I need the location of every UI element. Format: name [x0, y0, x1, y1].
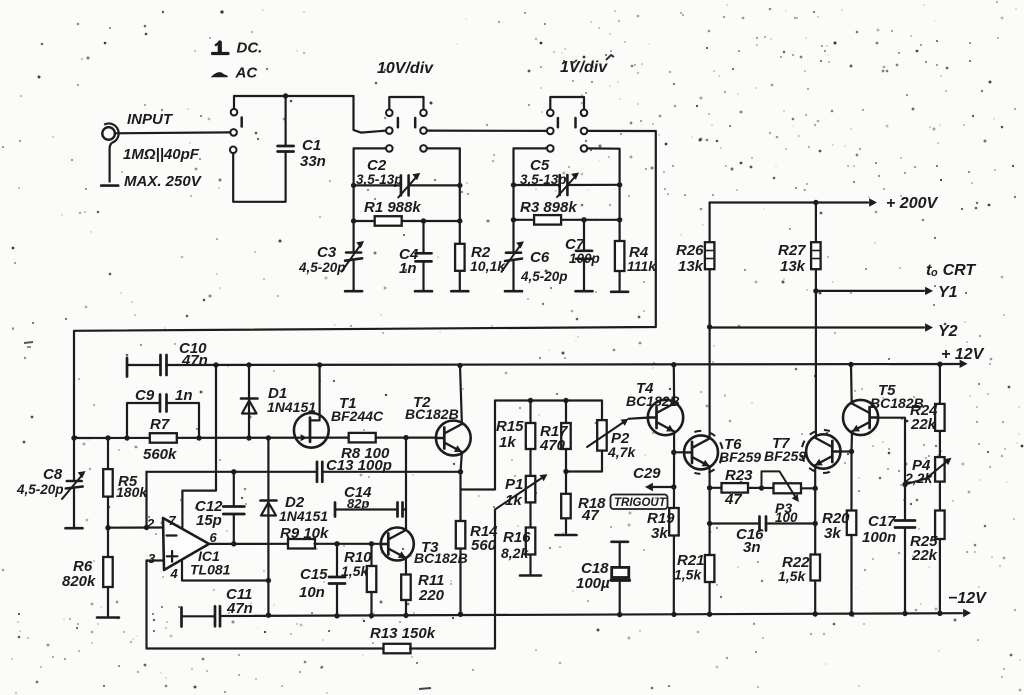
- svg-text:AC: AC: [235, 65, 259, 82]
- transistor T4 BC182B: [648, 400, 683, 435]
- wire S2 lower-right to divider: [427, 148, 460, 185]
- node C16 right: [813, 521, 818, 526]
- ground R18: [556, 534, 577, 537]
- node R21 -12V: [707, 612, 712, 617]
- svg-text:13k: 13k: [780, 258, 806, 275]
- svg-text:10n: 10n: [299, 584, 325, 601]
- svg-text:8,2k: 8,2k: [501, 545, 529, 561]
- node R22 -12V: [813, 611, 818, 616]
- node R14 -12V: [458, 612, 463, 617]
- TRIGOUT arrow C29: [649, 486, 674, 488]
- svg-text:1k: 1k: [505, 492, 522, 509]
- diode D2 1N4151: [267, 438, 269, 615]
- op-amp output line pin6: [209, 543, 289, 545]
- svg-text:3k: 3k: [651, 525, 668, 542]
- svg-text:7: 7: [169, 513, 177, 528]
- svg-text:3k: 3k: [824, 525, 841, 542]
- resistor R10: [370, 544, 372, 566]
- capacitor C16: [710, 522, 760, 524]
- svg-text:560: 560: [471, 537, 497, 554]
- node amplifier input: [71, 435, 76, 440]
- node R7 right: [196, 435, 201, 440]
- svg-text:R27: R27: [778, 242, 806, 259]
- svg-text:1n: 1n: [399, 260, 417, 277]
- svg-text:1,5k: 1,5k: [674, 567, 702, 583]
- svg-text:3,5-13p: 3,5-13p: [520, 172, 567, 187]
- svg-text:820k: 820k: [62, 573, 96, 590]
- trimmer capacitor C3: [353, 221, 355, 253]
- resistor R7: [150, 433, 177, 443]
- svg-text:4,5-20p: 4,5-20p: [16, 482, 64, 497]
- trimmer capacitor C6: [512, 220, 514, 253]
- svg-text:TL081: TL081: [190, 562, 231, 578]
- wire T4 collector to +12V: [673, 365, 675, 404]
- wire S1 DC contact to top rail: [234, 96, 286, 109]
- transistor T2 BC182B: [436, 421, 471, 456]
- wire T2 emitter: [461, 401, 603, 490]
- trimmer capacitor C5: [514, 184, 560, 186]
- svg-text:C17: C17: [868, 513, 896, 530]
- svg-text:22k: 22k: [911, 547, 938, 564]
- resistor R15: [529, 401, 531, 424]
- wire T2 collector: [460, 366, 462, 424]
- wire T3 emitter: [405, 558, 407, 574]
- svg-text:−12V: −12V: [948, 590, 987, 607]
- switch S1 actuator: [240, 118, 243, 127]
- switch S2 contacts: [386, 110, 393, 117]
- svg-text:tₒ CRT: tₒ CRT: [926, 262, 976, 279]
- capacitor C13 line: [147, 471, 318, 473]
- resistor R19: [669, 508, 679, 536]
- node R3 left: [511, 217, 516, 222]
- node R17 top: [563, 398, 568, 403]
- resistor R27: [815, 203, 817, 243]
- svg-text:4,7k: 4,7k: [607, 444, 636, 460]
- capacitor C9: [127, 403, 160, 438]
- wire T5 emitter: [850, 432, 853, 452]
- node R5 top: [105, 435, 110, 440]
- wire right rail: [618, 185, 620, 220]
- node R23/P3: [759, 485, 764, 490]
- +200V rail: [710, 201, 868, 203]
- node +12V pin7 branch: [213, 362, 218, 367]
- scan smudge marks: [606, 55, 614, 60]
- node C12 top: [231, 469, 236, 474]
- svg-text:4,5-20p: 4,5-20p: [298, 260, 346, 275]
- svg-text:R9 10k: R9 10k: [280, 525, 329, 542]
- node R1 left: [351, 218, 356, 223]
- node C1 top: [283, 93, 288, 98]
- capacitor C4: [422, 221, 424, 253]
- switch S3 actuators: [557, 118, 560, 127]
- svg-text:15p: 15p: [196, 512, 222, 529]
- wire S3 lower-right to divider: [587, 148, 619, 184]
- switch S2 actuators: [397, 118, 400, 127]
- wire T6 emitter: [708, 467, 710, 615]
- node R20 -12V: [849, 611, 854, 616]
- svg-text:47: 47: [581, 507, 599, 524]
- svg-text:TRIGOUT: TRIGOUT: [614, 497, 667, 509]
- svg-text:R26: R26: [676, 242, 704, 259]
- node C2 left: [351, 183, 356, 188]
- resistor R25: [939, 482, 941, 511]
- wire input to switch: [115, 131, 230, 134]
- svg-text:R23: R23: [725, 467, 753, 484]
- svg-text:1V/div: 1V/div: [560, 59, 608, 76]
- wire S3 lower-left to divider: [514, 148, 548, 185]
- capacitor C15: [336, 544, 338, 577]
- switch S3 contacts: [547, 110, 554, 117]
- svg-text:3: 3: [148, 551, 156, 566]
- wire S2 to S3: [427, 130, 547, 132]
- node R3 right: [617, 217, 622, 222]
- transistor T7 BF259: [806, 434, 840, 468]
- svg-text:C6: C6: [530, 249, 550, 266]
- transistor T6 BF259: [684, 435, 718, 469]
- svg-text:4,5-20p: 4,5-20p: [520, 269, 568, 284]
- ground R4: [611, 290, 628, 293]
- TRIGOUT box: [611, 495, 668, 510]
- node TRIGOUT tap: [671, 484, 676, 489]
- svg-text:1,5k: 1,5k: [341, 563, 369, 579]
- capacitor C14: [334, 503, 337, 517]
- DC position icon: [218, 43, 222, 54]
- trimmer capacitor C8: [73, 438, 75, 481]
- svg-text:R7: R7: [150, 416, 170, 433]
- wire T5 collector to +12V: [850, 365, 853, 404]
- svg-text:R16: R16: [503, 529, 531, 546]
- svg-text:47: 47: [724, 491, 742, 508]
- FET T1 BF244C: [294, 413, 329, 448]
- resistor R1: [354, 220, 460, 222]
- svg-text:Y1: Y1: [938, 284, 958, 301]
- svg-text:1N4151: 1N4151: [279, 508, 328, 524]
- node T6 emitter R23: [707, 485, 712, 490]
- svg-text:BF244C: BF244C: [331, 408, 384, 424]
- wire S1 AC contact loop: [233, 152, 285, 202]
- svg-text:R15: R15: [496, 418, 524, 435]
- node Y1: [813, 288, 818, 293]
- svg-text:180k: 180k: [116, 484, 148, 500]
- resistor R3: [514, 219, 620, 221]
- resistor R13 feedback: [147, 561, 385, 649]
- svg-text:10V/div: 10V/div: [377, 60, 434, 77]
- node T5 collector: [848, 362, 853, 367]
- resistor R18: [565, 472, 567, 495]
- node R1 right: [457, 218, 462, 223]
- input ground: [110, 143, 112, 183]
- potentiometer P1 1k: [526, 476, 536, 503]
- node D2 top: [266, 435, 271, 440]
- svg-text:100n: 100n: [862, 529, 896, 546]
- resistor R9: [288, 539, 315, 549]
- node T2 base / T3 collector: [403, 435, 408, 440]
- resistor R4: [618, 220, 620, 242]
- wire top rail to attenuator: [286, 95, 354, 97]
- node R10 -12V: [369, 613, 374, 618]
- ground R2: [451, 290, 468, 293]
- svg-text:560k: 560k: [143, 446, 177, 463]
- svg-text:R8 100: R8 100: [341, 445, 390, 462]
- potentiometer P4 2,2k: [935, 457, 945, 482]
- svg-text:DC.: DC.: [237, 40, 263, 57]
- resistor R6: [107, 528, 109, 557]
- resistor R11: [401, 575, 411, 601]
- svg-text:+ 12V: + 12V: [941, 346, 985, 363]
- node R11 -12V: [403, 613, 408, 618]
- svg-text:+ 200V: + 200V: [886, 195, 938, 212]
- resistor R2: [459, 221, 461, 244]
- node C18 -12V: [617, 612, 622, 617]
- wire pin4 to -12V: [182, 561, 268, 581]
- svg-text:Y2: Y2: [938, 323, 958, 340]
- svg-text:3n: 3n: [743, 539, 761, 556]
- node T7 base R20: [849, 449, 854, 454]
- capacitor C10 (+12V decoupling): [126, 358, 129, 377]
- diode D1 1N4151: [248, 365, 250, 438]
- wire Y1: [816, 290, 924, 292]
- resistor R26: [708, 203, 710, 243]
- wire T5 emitter node to R20: [850, 452, 852, 511]
- svg-text:P1: P1: [505, 476, 523, 493]
- node R5/R6 divider: [105, 525, 110, 530]
- svg-text:C1: C1: [302, 137, 321, 154]
- svg-text:C3: C3: [317, 244, 337, 261]
- +12V rail: [127, 364, 161, 366]
- wire C13 to pin2: [145, 472, 147, 528]
- capacitor C12: [233, 472, 235, 507]
- input connector J1: [102, 127, 115, 140]
- resistor R5: [107, 438, 109, 469]
- node pin4 -12V: [266, 578, 271, 583]
- svg-text:100p: 100p: [569, 251, 600, 266]
- svg-text:BC182B: BC182B: [405, 406, 459, 422]
- node C5 right: [617, 182, 622, 187]
- wire T7 emitter: [814, 466, 816, 615]
- resistor R20: [847, 511, 857, 536]
- svg-text:1n: 1n: [175, 387, 193, 404]
- node T4 collector: [671, 362, 676, 367]
- node C15 top: [334, 541, 339, 546]
- switch S2 bracket: [389, 97, 423, 109]
- capacitor C17: [895, 519, 915, 522]
- node T2 collector +12V: [457, 363, 462, 368]
- wire into S2: [354, 96, 387, 133]
- svg-text:13k: 13k: [678, 258, 704, 275]
- node C2 right: [457, 183, 462, 188]
- svg-text:MAX. 250V: MAX. 250V: [124, 173, 203, 190]
- node C16 left: [707, 521, 712, 526]
- node T6 base junction: [671, 450, 676, 455]
- -12V rail: [182, 615, 216, 617]
- transistor T3 BC182B: [381, 528, 414, 561]
- svg-text:47n: 47n: [226, 600, 253, 617]
- svg-text:2,2k: 2,2k: [904, 470, 933, 486]
- node C13 right: [458, 469, 463, 474]
- node C7 top: [581, 217, 586, 222]
- svg-text:R3 898k: R3 898k: [520, 199, 577, 216]
- svg-text:220: 220: [418, 587, 445, 604]
- svg-text:1,5k: 1,5k: [778, 568, 806, 584]
- ground R16: [520, 574, 541, 577]
- wire S2 lower-left to divider: [354, 148, 386, 185]
- wire P2 to T4 base: [629, 418, 648, 419]
- svg-text:C15: C15: [300, 566, 328, 583]
- svg-text:3,5-13p: 3,5-13p: [356, 172, 403, 187]
- wire pin7 supply: [182, 365, 216, 528]
- node R19 -12V: [671, 612, 676, 617]
- svg-text:C9: C9: [135, 387, 155, 404]
- wire left rail R3: [512, 185, 514, 220]
- capacitor C11 (-12V decoupling): [180, 608, 183, 627]
- svg-text:22k: 22k: [910, 416, 937, 433]
- resistor R23: [710, 487, 722, 489]
- svg-text:33n: 33n: [300, 153, 326, 170]
- svg-text:470: 470: [539, 437, 566, 454]
- node P4 wiper: [902, 482, 907, 487]
- resistor R14: [456, 521, 466, 549]
- ground C3: [345, 290, 362, 293]
- svg-text:111k: 111k: [627, 258, 657, 274]
- wire right rail: [459, 185, 461, 221]
- node C13 pin2 tie: [144, 525, 149, 530]
- wire T6 base: [674, 451, 684, 453]
- AC position icon: [213, 73, 228, 77]
- node R24 +12V: [937, 362, 942, 367]
- capacitor C7: [583, 220, 585, 251]
- ground R6: [97, 616, 119, 619]
- resistor R17: [565, 401, 567, 424]
- switch S1 AC/DC contacts: [231, 109, 238, 116]
- node C4 top: [421, 218, 426, 223]
- resistor R24: [939, 364, 941, 404]
- wire T2 emitter to R14: [459, 490, 461, 522]
- wire T6 collector from R26: [708, 269, 710, 438]
- svg-text:BC182B: BC182B: [414, 550, 468, 566]
- capacitor C18 100u: [612, 540, 629, 543]
- ground C6: [505, 290, 522, 293]
- ground C8: [66, 527, 83, 530]
- ground C7: [576, 290, 593, 293]
- switch S3 bracket: [550, 97, 584, 109]
- ground C4: [415, 290, 432, 293]
- node R10 top: [369, 541, 374, 546]
- node C5 left: [511, 182, 516, 187]
- potentiometer P2 4,7k: [601, 401, 603, 421]
- node C17 -12V: [902, 611, 907, 616]
- node C15 -12V: [334, 613, 339, 618]
- wire T5 base: [878, 418, 905, 521]
- node R27 top: [813, 200, 818, 205]
- svg-text:1k: 1k: [499, 434, 516, 451]
- main input line: [74, 437, 349, 440]
- svg-text:1MΩ||40pF: 1MΩ||40pF: [123, 146, 200, 163]
- resistor R22: [811, 555, 821, 581]
- wire left rail R1: [353, 185, 355, 221]
- trimmer capacitor C2: [354, 184, 401, 186]
- wire T7 collector from R27 Y1: [815, 269, 817, 437]
- svg-text:100µ: 100µ: [576, 575, 610, 592]
- svg-text:C29: C29: [633, 465, 661, 482]
- svg-text:INPUT: INPUT: [127, 111, 174, 128]
- svg-text:BF259: BF259: [719, 449, 761, 465]
- capacitor C1: [285, 96, 287, 146]
- node Y2: [707, 324, 712, 329]
- node D1 anode: [246, 435, 251, 440]
- svg-text:6: 6: [210, 530, 218, 545]
- node R15 top: [528, 398, 533, 403]
- node R17/R18: [563, 469, 568, 474]
- svg-text:47n: 47n: [181, 352, 208, 369]
- node T1 drain: [317, 362, 322, 367]
- wire T7 base to R20: [841, 450, 852, 452]
- svg-text:BF259: BF259: [764, 448, 806, 464]
- wire Y2: [710, 326, 924, 328]
- node T7 emitter P3: [813, 486, 818, 491]
- wire attenuator output to amplifier input: [74, 131, 656, 438]
- svg-text:R1 988k: R1 988k: [364, 199, 421, 216]
- wire T4 emitter: [673, 432, 675, 616]
- potentiometer P3 100: [774, 483, 802, 493]
- node R25 -12V: [937, 611, 942, 616]
- svg-text:R13 150k: R13 150k: [370, 625, 436, 642]
- svg-text:BC182B: BC182B: [626, 393, 680, 409]
- node R7 left: [124, 435, 129, 440]
- transistor T5 BC182B: [843, 400, 878, 435]
- svg-text:4: 4: [170, 566, 179, 581]
- op-amp IC1 TL081: [163, 518, 209, 570]
- wire T3 collector: [405, 438, 407, 530]
- svg-text:C8: C8: [43, 466, 63, 483]
- resistor R8: [349, 433, 376, 443]
- resistor R16: [529, 503, 531, 528]
- node C12 bottom: [231, 541, 236, 546]
- svg-text:82p: 82p: [347, 496, 369, 511]
- node D2 -12V: [266, 613, 271, 618]
- resistor R21: [705, 555, 715, 582]
